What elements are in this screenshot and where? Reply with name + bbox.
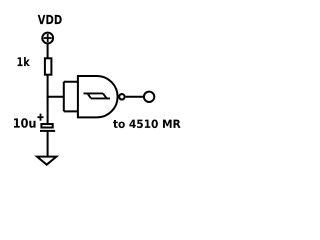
wire capacitor to ground: [47, 131, 49, 157]
wire resistor to capacitor: [47, 75, 49, 124]
value label 1k: [18, 57, 30, 66]
wire bubble to terminal: [126, 96, 145, 98]
ground: [37, 157, 56, 165]
output terminal: [144, 92, 154, 102]
capacitor C1 bottom plate: [40, 130, 55, 132]
label to 4510 MR: [113, 120, 180, 129]
wire VDD to resistor: [47, 43, 49, 58]
resistor R1: [45, 58, 52, 74]
plus polarity mark: [37, 114, 43, 121]
wire junction to gate inputs: [47, 96, 64, 98]
capacitor C1 top plate: [41, 124, 52, 128]
input tie wires: [64, 82, 78, 112]
hysteresis mark: [84, 93, 111, 98]
power VDD terminal: [42, 33, 53, 44]
value label 10u: [14, 118, 36, 128]
NAND Schmitt trigger gate U1: [78, 76, 118, 117]
net label VDD: [38, 15, 62, 24]
output inversion bubble: [119, 94, 124, 99]
